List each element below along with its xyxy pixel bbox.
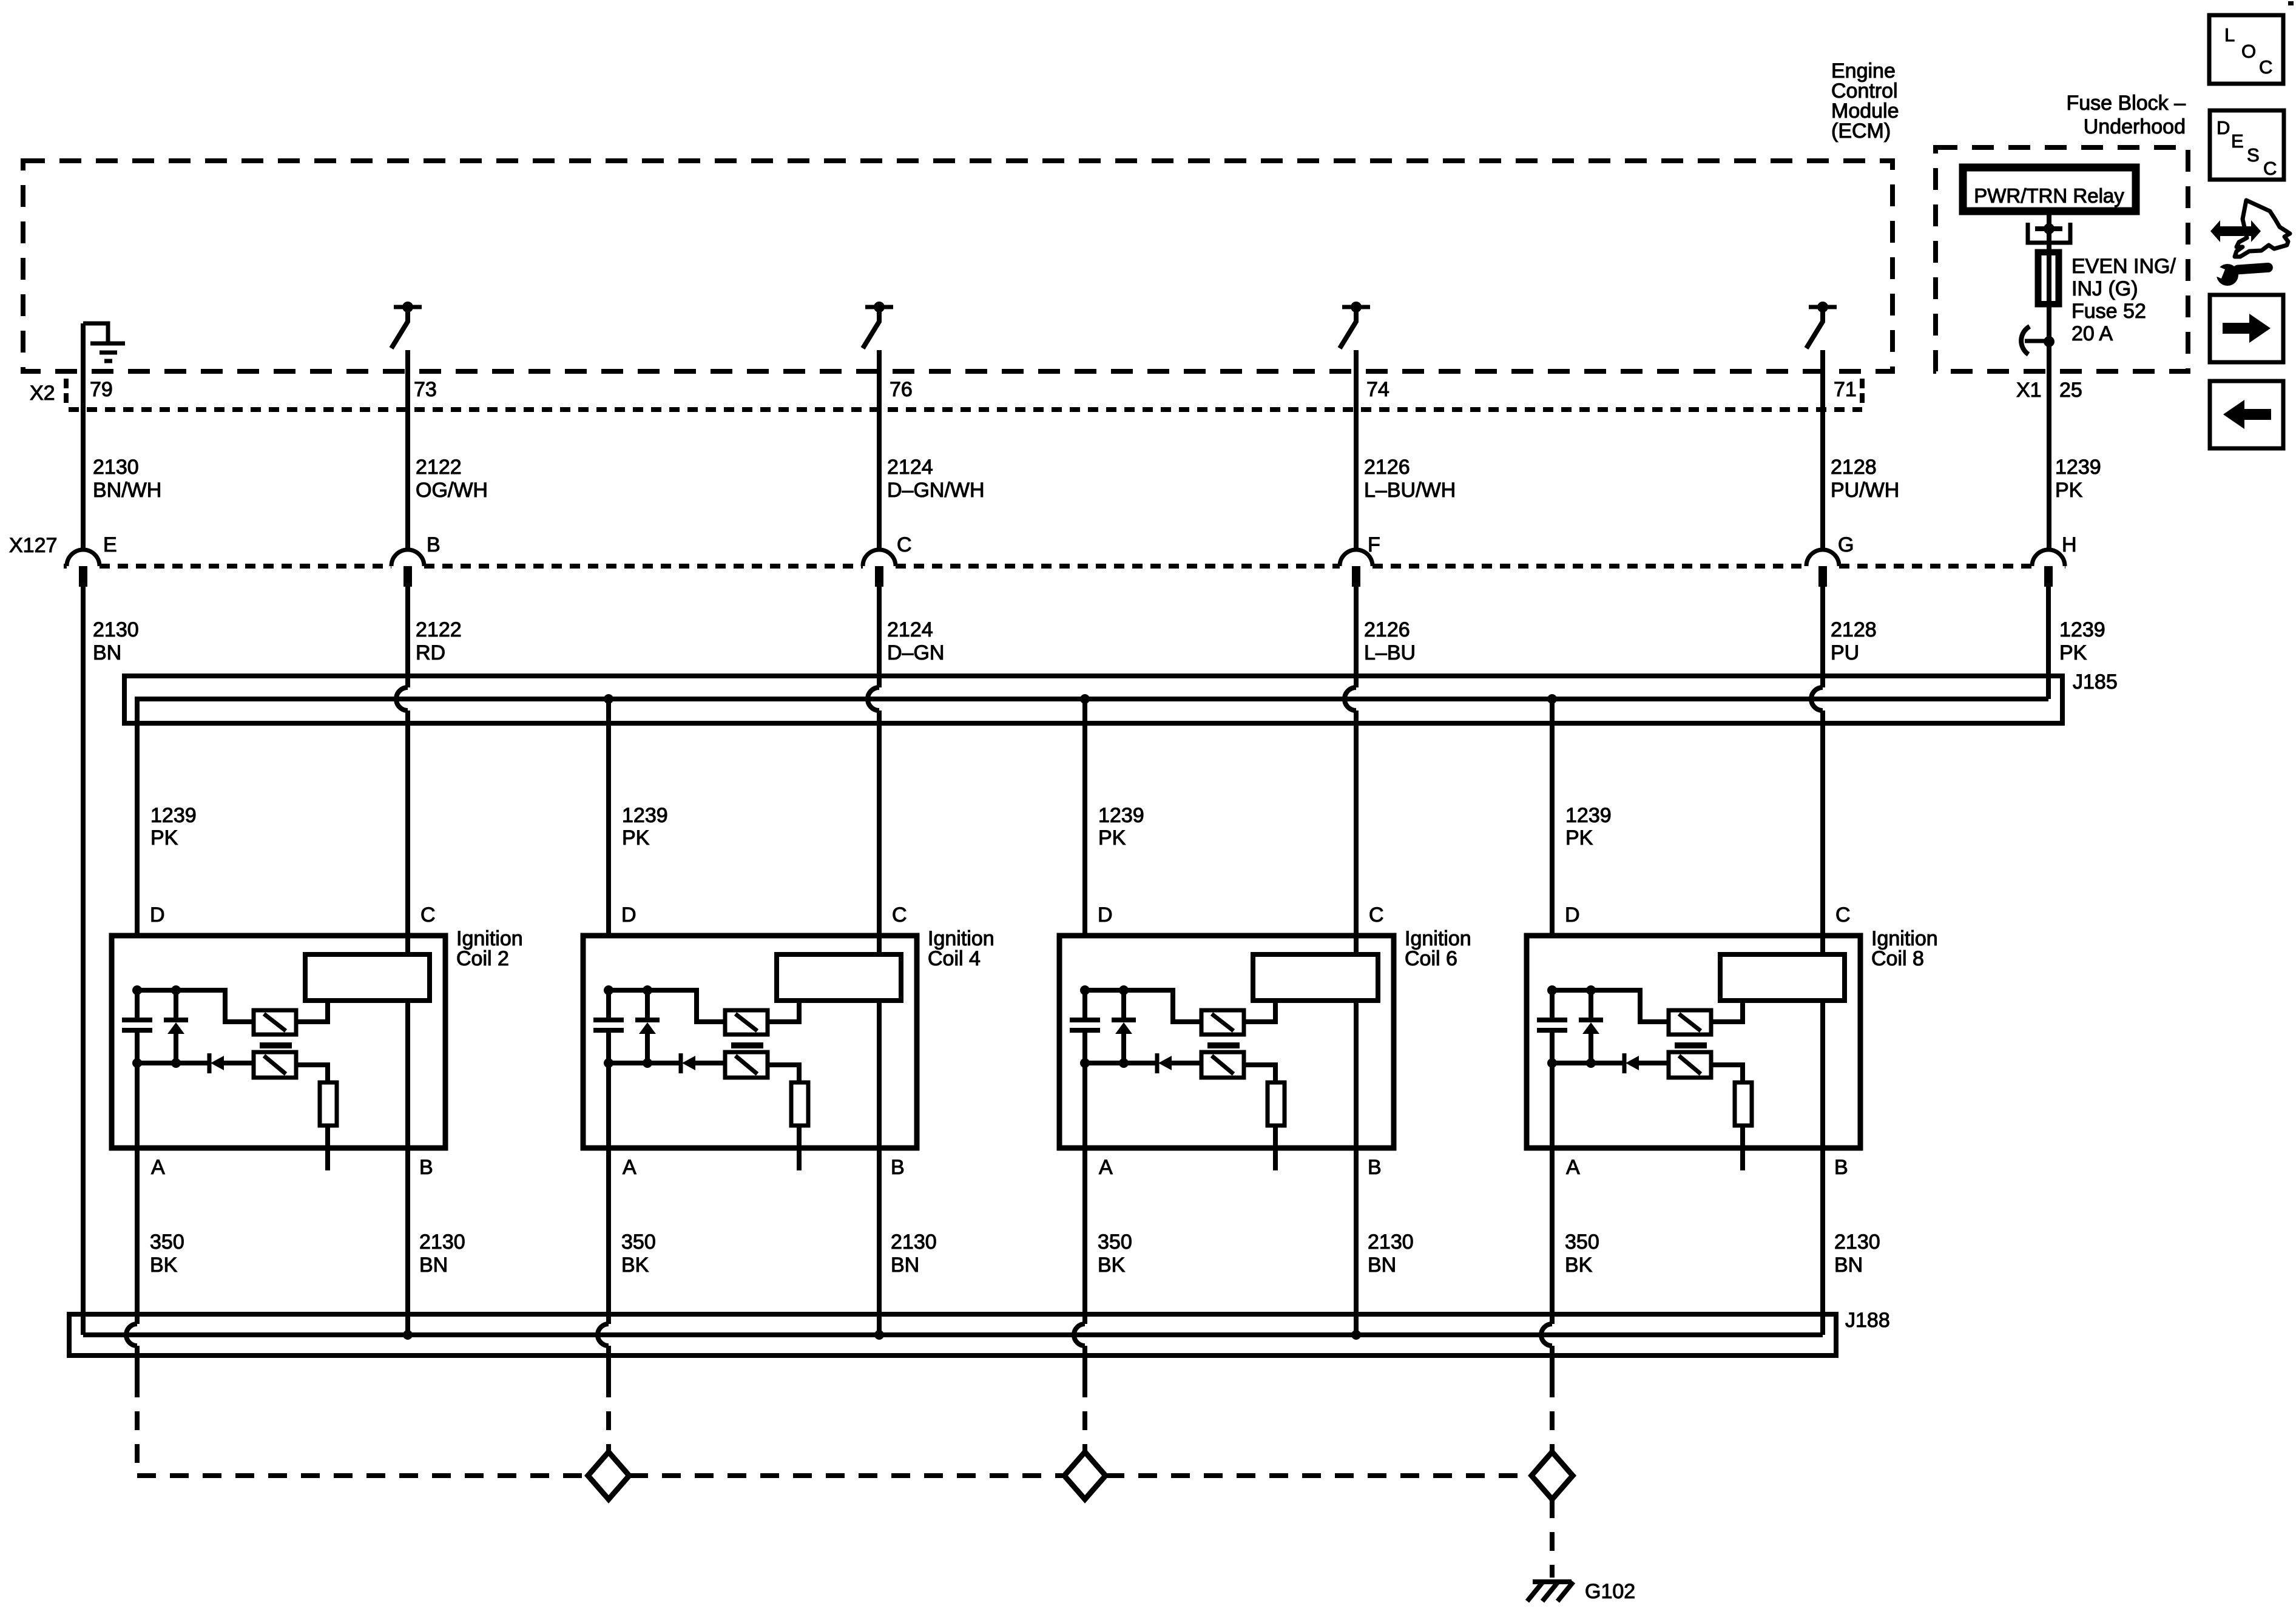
ECM label — [1831, 59, 1899, 143]
pin letter D coil 2 — [150, 903, 165, 927]
dashed drop coil 4 — [606, 1397, 611, 1452]
coil 2 diode — [209, 1053, 254, 1073]
svg-text:OG/WH: OG/WH — [416, 479, 488, 502]
coil 6 primary top link — [1085, 990, 1201, 1022]
svg-text:2130: 2130 — [93, 618, 139, 641]
fuse EVEN ING/INJ (G) Fuse 52 20 A — [2037, 251, 2176, 346]
svg-text:D: D — [621, 903, 636, 927]
pin letter B coil 2 — [419, 1156, 433, 1179]
svg-text:BK: BK — [621, 1254, 649, 1277]
coil 8 resistor — [1735, 1082, 1752, 1126]
coil 2 spark output stub — [325, 1126, 330, 1170]
svg-text:PWR/TRN Relay: PWR/TRN Relay — [1974, 184, 2124, 207]
ground G102 symbol — [1527, 1582, 1573, 1601]
svg-text:H: H — [2062, 533, 2077, 556]
wire 2128 PU/WH — [1820, 350, 1825, 551]
svg-text:Coil 2: Coil 2 — [456, 947, 509, 970]
pin letter A coil 6 — [1099, 1156, 1113, 1179]
svg-text:20 A: 20 A — [2071, 322, 2113, 345]
svg-text:J185: J185 — [2073, 670, 2118, 694]
wire 2130 BN/WH (pin 79) — [81, 323, 86, 551]
svg-text:G: G — [1838, 533, 1854, 556]
svg-text:X2: X2 — [30, 382, 55, 405]
svg-text:2130: 2130 — [93, 456, 139, 479]
coil 2 core bar — [260, 1042, 292, 1048]
pin letter C — [897, 533, 912, 556]
Engine Control Module (ECM) dashed box — [23, 161, 1893, 371]
svg-text:2126: 2126 — [1364, 618, 1410, 641]
coil 2 lower link — [137, 1061, 209, 1065]
coil 8 lower link — [1552, 1061, 1624, 1065]
coil 4 zener diode — [635, 990, 660, 1063]
coil 4 winding link — [768, 1001, 799, 1022]
dashed drop coil 6 — [1082, 1397, 1087, 1452]
label 2126 L&#8211;BU — [1364, 618, 1416, 664]
wire relay to fuse — [2047, 211, 2051, 307]
svg-text:Coil 8: Coil 8 — [1871, 947, 1924, 970]
J185 junction dot — [1080, 694, 1090, 704]
svg-text:BN: BN — [891, 1254, 919, 1277]
coil 4 lower link — [609, 1061, 681, 1065]
X127 label — [9, 534, 57, 557]
label 1239 PK coil 8 — [1565, 804, 1612, 849]
label 2130 BN coil 4 — [891, 1230, 937, 1277]
svg-text:D: D — [2217, 117, 2230, 138]
coil 4 secondary winding — [777, 954, 901, 1001]
J188 junction dot — [403, 1330, 413, 1340]
coil 4 resistor — [791, 1082, 808, 1126]
svg-text:BN/WH: BN/WH — [93, 479, 161, 502]
splice diamond S3 — [1531, 1452, 1573, 1499]
coil 2 primary top link — [137, 990, 254, 1022]
label 2128 PU — [1831, 618, 1877, 664]
coil 6 secondary winding — [1253, 954, 1378, 1001]
coil 8 secondary winding — [1720, 954, 1845, 1001]
pin letter B coil 6 — [1368, 1156, 1382, 1179]
wire 350 BK coil 4 — [598, 1063, 609, 1397]
page corner mark — [2288, 1, 2294, 5]
ignition coil 8 box — [1527, 936, 1860, 1148]
wire 2128 PU (to coil 8) — [1811, 587, 1823, 1335]
dashed drop coil 2 to ground line — [137, 1397, 586, 1476]
svg-text:2124: 2124 — [887, 618, 933, 641]
coil 4 winding2 to resistor — [768, 1065, 799, 1082]
svg-text:BN: BN — [419, 1254, 448, 1277]
J188 junction dot — [874, 1330, 884, 1340]
ECM internal ground symbol — [83, 323, 125, 361]
svg-text:EVEN ING/: EVEN ING/ — [2071, 255, 2176, 278]
svg-text:D: D — [1565, 903, 1580, 927]
coil 8 winding 2 — [1669, 1052, 1711, 1078]
svg-text:25: 25 — [2059, 379, 2082, 402]
pin 76 label — [890, 378, 913, 401]
X127 connector terminal F — [1340, 550, 1373, 587]
coil 4 winding 2 — [725, 1052, 768, 1078]
svg-text:1239: 1239 — [1098, 804, 1144, 827]
svg-text:2128: 2128 — [1831, 618, 1877, 641]
G102 label — [1585, 1580, 1635, 1603]
X2 dotted connector line — [69, 407, 1862, 412]
svg-text:BK: BK — [1098, 1254, 1126, 1277]
svg-text:Coil 4: Coil 4 — [928, 947, 981, 970]
svg-text:Underhood: Underhood — [2084, 115, 2186, 138]
coil 4 label — [928, 927, 994, 970]
coil 6 junction dots — [1080, 985, 1129, 1068]
svg-text:C: C — [2259, 56, 2272, 78]
J185 label — [2073, 670, 2118, 694]
pin 73 label — [414, 378, 437, 401]
wire 2124 D&#8211;GN/WH — [877, 350, 882, 551]
coil 6 winding 2 — [1201, 1052, 1244, 1078]
svg-text:1239: 1239 — [150, 804, 197, 827]
svg-text:A: A — [623, 1156, 636, 1179]
svg-text:1239: 1239 — [622, 804, 668, 827]
wire 2126 L&#8211;BU/WH — [1354, 350, 1359, 551]
ECM driver switch 2 — [863, 302, 893, 348]
pin letter A coil 4 — [623, 1156, 636, 1179]
svg-text:X127: X127 — [9, 534, 57, 557]
label 1239 PK coil 6 — [1098, 804, 1144, 849]
coil 6 winding link — [1244, 1001, 1275, 1022]
forward arrow icon box — [2210, 295, 2283, 362]
relay terminal bracket — [2028, 223, 2070, 243]
coil 8 winding link — [1711, 1001, 1743, 1022]
wire 2126 L&#8211;BU (to coil 6) — [1345, 587, 1356, 1335]
svg-text:E: E — [103, 533, 117, 556]
pin letter E — [103, 533, 117, 556]
svg-text:A: A — [1566, 1156, 1580, 1179]
svg-text:B: B — [1834, 1156, 1848, 1179]
svg-text:350: 350 — [150, 1230, 184, 1254]
svg-text:BN: BN — [93, 641, 121, 664]
coil 8 spark output stub — [1740, 1126, 1745, 1170]
pin letter D coil 6 — [1098, 903, 1113, 927]
coil 6 winding 1 — [1201, 1010, 1244, 1035]
coil 6 core bar — [1207, 1042, 1240, 1048]
X127 connector terminal E — [67, 550, 100, 587]
J188 junction dot — [1351, 1330, 1361, 1340]
J188 label — [1845, 1309, 1890, 1332]
pin 74 label — [1366, 378, 1389, 401]
svg-text:C: C — [1369, 903, 1384, 927]
svg-text:BK: BK — [1565, 1254, 1593, 1277]
ignition coil 4 box — [583, 936, 917, 1148]
svg-text:L: L — [2224, 24, 2235, 46]
svg-text:INJ (G): INJ (G) — [2071, 277, 2138, 300]
wire 350 BK coil 8 — [1541, 1063, 1552, 1397]
svg-text:B: B — [1368, 1156, 1382, 1179]
X127 dotted connector line — [64, 564, 2065, 569]
svg-text:D–GN: D–GN — [887, 641, 944, 664]
wire 1239 PK feed to coil 8 pin D — [1550, 699, 1555, 936]
svg-text:2130: 2130 — [1368, 1230, 1414, 1254]
coil 4 diode — [681, 1053, 725, 1073]
coil 2 zener diode — [164, 990, 188, 1063]
svg-text:1239: 1239 — [1565, 804, 1612, 827]
svg-text:PK: PK — [2055, 479, 2083, 502]
svg-text:F: F — [1368, 533, 1380, 556]
coil 4 capacitor — [593, 990, 624, 1063]
J188 inner bus line — [83, 1332, 1823, 1337]
label 2126 L&#8211;BU/WH — [1364, 456, 1456, 502]
svg-text:C: C — [892, 903, 907, 927]
LOC icon box — [2209, 15, 2283, 84]
label 2130 BN coil 8 — [1834, 1230, 1880, 1277]
coil 8 primary top link — [1552, 990, 1669, 1022]
label 2130 BN — [93, 618, 139, 664]
svg-text:(ECM): (ECM) — [1831, 120, 1891, 143]
X127 connector terminal C — [863, 550, 896, 587]
splice diamond S2 — [1064, 1452, 1106, 1499]
label 2128 PU/WH — [1831, 456, 1899, 502]
Fuse Block Underhood dashed box — [1936, 147, 2188, 371]
svg-text:PK: PK — [622, 826, 650, 849]
coil 2 capacitor — [122, 990, 152, 1063]
svg-text:C: C — [897, 533, 912, 556]
hand icon outline — [2235, 200, 2290, 257]
dashed ground line segment 2 — [629, 1473, 1064, 1478]
coil 8 zener diode — [1579, 990, 1603, 1063]
svg-text:350: 350 — [621, 1230, 656, 1254]
pin 79 label — [90, 378, 113, 401]
wire 1239 PK feed to coil 4 pin D — [606, 699, 611, 936]
label 350 BK coil 6 — [1098, 1230, 1132, 1277]
wire 350 BK coil 2 — [126, 1063, 137, 1397]
coil 6 lower link — [1085, 1061, 1157, 1065]
coil 8 winding2 to resistor — [1711, 1065, 1743, 1082]
svg-text:B: B — [419, 1156, 433, 1179]
wire 1239 PK feed to coil 2 pin D — [135, 699, 140, 936]
coil 8 core bar — [1675, 1042, 1707, 1048]
coil 8 diode — [1624, 1053, 1669, 1073]
dashed drop to G102 — [1550, 1499, 1555, 1578]
ECM driver switch 4 — [1806, 302, 1837, 348]
J185 junction dot — [1547, 694, 1557, 704]
svg-text:S: S — [2247, 144, 2260, 166]
svg-text:C: C — [2263, 158, 2277, 179]
svg-text:RD: RD — [416, 641, 445, 664]
svg-text:O: O — [2241, 41, 2256, 62]
coil 6 diode — [1157, 1053, 1201, 1073]
svg-text:PK: PK — [150, 826, 178, 849]
pin letter H — [2062, 533, 2077, 556]
X2 label — [30, 382, 55, 405]
coil 6 capacitor — [1070, 990, 1100, 1063]
svg-text:BN: BN — [1368, 1254, 1396, 1277]
coil 8 winding 1 — [1669, 1010, 1711, 1035]
coil 4 spark output stub — [797, 1126, 802, 1170]
wrench icon — [2208, 262, 2273, 286]
pin letter A coil 8 — [1566, 1156, 1580, 1179]
splice pack J185 outer box — [124, 676, 2062, 723]
pin letter B — [427, 533, 441, 556]
pin letter A coil 2 — [151, 1156, 165, 1179]
svg-text:Coil 6: Coil 6 — [1405, 947, 1457, 970]
coil 6 winding2 to resistor — [1244, 1065, 1275, 1082]
ignition coil 2 box — [112, 936, 445, 1148]
svg-text:Fuse 52: Fuse 52 — [2071, 300, 2146, 323]
svg-text:C: C — [1835, 903, 1851, 927]
X2 separator right — [1860, 379, 1865, 408]
coil 2 junction dots — [132, 985, 181, 1068]
wire 2130 BN (E to J188) — [81, 587, 86, 1335]
svg-text:E: E — [2231, 130, 2244, 152]
pin 71 label — [1834, 378, 1857, 401]
coil 4 junction dots — [604, 985, 652, 1068]
svg-text:2130: 2130 — [1834, 1230, 1880, 1254]
X2 separator left — [64, 379, 69, 408]
ECM driver switch 1 — [391, 302, 422, 348]
svg-text:B: B — [427, 533, 441, 556]
wire 1239 PK (H to J185) — [2046, 587, 2051, 699]
label 1239 PK (lower) — [2059, 618, 2105, 664]
svg-text:2130: 2130 — [419, 1230, 465, 1254]
splice pack J188 outer box — [69, 1314, 1836, 1355]
svg-text:B: B — [891, 1156, 905, 1179]
coil 8 label — [1871, 927, 1938, 970]
wire 2122 OG/WH — [405, 350, 410, 551]
coil 4 primary top link — [609, 990, 725, 1022]
X127 connector terminal B — [391, 550, 424, 587]
pin letter C coil 4 — [892, 903, 907, 927]
coil 2 resistor — [320, 1082, 337, 1126]
pin letter C coil 2 — [420, 903, 436, 927]
label 2122 RD — [416, 618, 462, 664]
wire 2124 D&#8211;GN (to coil 4) — [868, 587, 879, 1335]
pin letter G — [1838, 533, 1854, 556]
svg-text:2122: 2122 — [416, 456, 462, 479]
label 2130 BN coil 6 — [1368, 1230, 1414, 1277]
svg-text:2128: 2128 — [1831, 456, 1877, 479]
wire 1239 PK feed to coil 6 pin D — [1082, 699, 1087, 936]
dashed drop coil 8 — [1550, 1397, 1555, 1452]
wire 350 BK coil 6 — [1074, 1063, 1085, 1397]
label 2130 BN coil 2 — [419, 1230, 465, 1277]
svg-text:2126: 2126 — [1364, 456, 1410, 479]
pin letter D coil 4 — [621, 903, 636, 927]
coil 2 winding 1 — [254, 1010, 296, 1035]
label 2130 BN/WH — [93, 456, 161, 502]
svg-text:L–BU/WH: L–BU/WH — [1364, 479, 1456, 502]
svg-text:A: A — [1099, 1156, 1113, 1179]
svg-text:X1: X1 — [2016, 379, 2042, 402]
svg-text:J188: J188 — [1845, 1309, 1890, 1332]
coil 6 label — [1405, 927, 1471, 970]
svg-text:79: 79 — [90, 378, 113, 401]
pin 25 label — [2059, 379, 2082, 402]
coil 2 secondary winding — [305, 954, 430, 1001]
pin letter D coil 8 — [1565, 903, 1580, 927]
label 1239 PK coil 2 — [150, 804, 197, 849]
hand icon double arrow — [2210, 220, 2261, 242]
svg-text:2130: 2130 — [891, 1230, 937, 1254]
coil 4 core bar — [731, 1042, 763, 1048]
back arrow icon box — [2210, 381, 2283, 448]
label 1239 PK (upper) — [2055, 456, 2101, 502]
svg-text:1239: 1239 — [2055, 456, 2101, 479]
ECM driver switch 3 — [1340, 302, 1370, 348]
pin letter C coil 6 — [1369, 903, 1384, 927]
svg-text:BN: BN — [1834, 1254, 1863, 1277]
label 2124 D&#8211;GN/WH — [887, 456, 985, 502]
svg-text:D–GN/WH: D–GN/WH — [887, 479, 985, 502]
fuse lower hook terminal — [2021, 326, 2055, 354]
svg-text:D: D — [1098, 903, 1113, 927]
svg-text:BK: BK — [150, 1254, 178, 1277]
svg-text:2124: 2124 — [887, 456, 933, 479]
svg-text:PK: PK — [2059, 641, 2087, 664]
X127 connector terminal H — [2032, 550, 2065, 587]
PWR/TRN Relay box — [1963, 167, 2136, 211]
svg-text:PK: PK — [1098, 826, 1126, 849]
ignition coil 6 box — [1059, 936, 1394, 1148]
coil 8 capacitor — [1537, 990, 1567, 1063]
svg-text:PU/WH: PU/WH — [1831, 479, 1899, 502]
label 350 BK coil 4 — [621, 1230, 656, 1277]
pin letter B coil 4 — [891, 1156, 905, 1179]
svg-text:L–BU: L–BU — [1364, 641, 1416, 664]
svg-text:PU: PU — [1831, 641, 1859, 664]
svg-text:74: 74 — [1366, 378, 1389, 401]
coil 4 winding 1 — [725, 1010, 768, 1035]
pin letter F — [1368, 533, 1380, 556]
coil 2 winding 2 — [254, 1052, 296, 1078]
DESC icon box — [2210, 110, 2284, 180]
svg-text:76: 76 — [890, 378, 913, 401]
splice diamond S1 — [588, 1452, 629, 1499]
pin letter B coil 8 — [1834, 1156, 1848, 1179]
label 2124 D&#8211;GN — [887, 618, 944, 664]
coil 6 resistor — [1268, 1082, 1285, 1126]
Fuse Block label — [2066, 92, 2186, 138]
svg-text:G102: G102 — [1585, 1580, 1635, 1603]
coil 2 winding link — [296, 1001, 328, 1022]
coil 2 winding2 to resistor — [296, 1065, 328, 1082]
coil 6 zener diode — [1112, 990, 1136, 1063]
svg-text:2122: 2122 — [416, 618, 462, 641]
svg-text:71: 71 — [1834, 378, 1857, 401]
X127 connector terminal G — [1806, 550, 1839, 587]
svg-text:A: A — [151, 1156, 165, 1179]
svg-text:73: 73 — [414, 378, 437, 401]
dashed ground line segment 3 — [1106, 1473, 1531, 1478]
svg-text:350: 350 — [1565, 1230, 1599, 1254]
coil 2 label — [456, 927, 523, 970]
label 350 BK coil 8 — [1565, 1230, 1599, 1277]
label 1239 PK coil 4 — [622, 804, 668, 849]
svg-text:350: 350 — [1098, 1230, 1132, 1254]
svg-text:C: C — [420, 903, 436, 927]
J185 inner bus line — [135, 697, 2048, 701]
X1 label — [2016, 379, 2042, 402]
pin letter C coil 8 — [1835, 903, 1851, 927]
wire 2122 RD (to coil 2) — [396, 587, 408, 1335]
coil 8 junction dots — [1547, 985, 1596, 1068]
label 350 BK coil 2 — [150, 1230, 184, 1277]
wire fuse to X1 pin 25 — [2047, 305, 2051, 551]
svg-text:D: D — [150, 903, 165, 927]
svg-text:PK: PK — [1565, 826, 1593, 849]
label 2122 OG/WH — [416, 456, 488, 502]
svg-text:Fuse Block –: Fuse Block – — [2066, 92, 2186, 115]
coil 6 spark output stub — [1273, 1126, 1278, 1170]
svg-text:1239: 1239 — [2059, 618, 2105, 641]
J185 junction dot — [604, 694, 613, 704]
